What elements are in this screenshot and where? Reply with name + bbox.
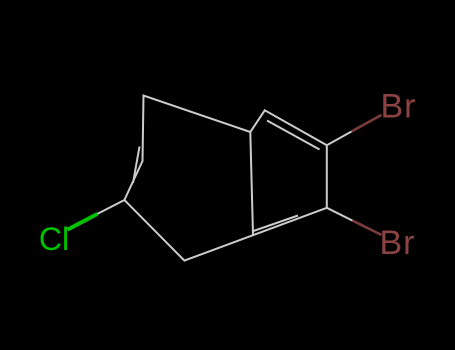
svg-text:Br: Br — [380, 224, 416, 262]
svg-text:Cl: Cl — [39, 221, 69, 257]
svg-text:Br: Br — [381, 88, 417, 126]
